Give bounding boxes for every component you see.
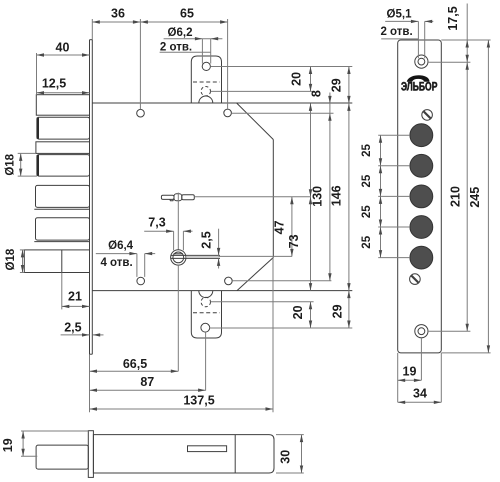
svg-text:21: 21 (68, 290, 82, 304)
dimension line dia 18 bottom (22, 250, 24, 273)
extension line hub center down (177, 265, 179, 371)
svg-text:29: 29 (331, 304, 345, 318)
svg-text:137,5: 137,5 (183, 394, 214, 408)
top tab semicircle recess (199, 96, 213, 103)
bottom screw hole inner (418, 328, 425, 335)
dimension line 2.5 faceplate (61, 334, 90, 336)
extension plate right edge down (440, 353, 442, 402)
extension line from crank arm (219, 255, 293, 257)
svg-text:47: 47 (273, 220, 287, 234)
lock body top edge (92, 102, 352, 104)
svg-text:2,5: 2,5 (200, 231, 214, 248)
extension lines dia 5.1 (417, 21, 419, 58)
latch block (24, 250, 89, 273)
svg-text:66,5: 66,5 (123, 357, 147, 371)
dimension line dia 5.1 (385, 20, 418, 22)
top screw hole inner (418, 58, 425, 65)
hub hatch line (174, 253, 184, 255)
svg-text:245: 245 (468, 187, 482, 208)
extension line x36.5 (36, 53, 38, 95)
latch face line (61, 250, 63, 273)
extension lines dia 6.4 hole (136, 254, 138, 277)
bolt rectangle 4 rounded (37, 155, 90, 177)
svg-text:34: 34 (413, 386, 427, 400)
dimension line 137.5 (90, 408, 274, 410)
dimension 73 line (310, 103, 312, 290)
dimension line dia 6.4 (96, 253, 137, 255)
extension plate top right (441, 39, 490, 41)
svg-text:36: 36 (111, 7, 125, 21)
svg-text:19: 19 (403, 365, 417, 379)
bolt 2 bold left edge (37, 118, 39, 139)
extension bottom screw hole down (420, 338, 422, 381)
extension line from top dashed hole (211, 90, 314, 92)
svg-text:25: 25 (361, 144, 373, 157)
bolt circle 1 (410, 124, 433, 147)
svg-text:17,5: 17,5 (446, 6, 460, 30)
lock body bottom-right chamfer (237, 258, 273, 291)
svg-text:Ø18: Ø18 (5, 248, 17, 270)
extension lines dia 18 top (18, 152, 36, 154)
svg-text:Ø6,2: Ø6,2 (168, 27, 193, 39)
bottom screw hole outer (415, 325, 428, 338)
svg-text:146: 146 (330, 185, 344, 206)
bolt rectangle 3 (36, 142, 90, 154)
extension plate bottom right (441, 352, 490, 354)
extension plate left edge down (397, 353, 399, 402)
svg-text:Ø18: Ø18 (4, 153, 16, 175)
dimension 47 line (291, 197, 293, 257)
extension line 65 end to hole (227, 19, 229, 109)
extension line from top tab hole (210, 66, 352, 68)
faceplate bottom step (90, 353, 93, 355)
body hole top-right (224, 109, 232, 117)
faceplate side view back edge (91, 19, 93, 40)
extension bottom hole right (428, 330, 470, 332)
svg-text:7,3: 7,3 (148, 216, 165, 230)
crank arm lower line (171, 257, 220, 259)
label shelf 2 otv (160, 51, 211, 53)
svg-text:65: 65 (180, 7, 194, 21)
faceplate top step (90, 39, 93, 41)
bottom view faceplate section (88, 431, 93, 478)
svg-text:12,5: 12,5 (42, 76, 66, 90)
body hole bottom-right (225, 277, 233, 285)
bolt rectangle 6 (36, 218, 90, 240)
svg-text:2 отв.: 2 отв. (160, 41, 192, 53)
top tab dashed line (193, 81, 220, 83)
dimension 8 and 130 line (329, 93, 331, 281)
bolt circle 4 (410, 216, 433, 239)
dimension line 87 (90, 389, 206, 391)
dimension line 21 (62, 305, 90, 307)
body hole bottom-left (137, 277, 145, 285)
bottom view slot (188, 446, 227, 452)
crank arm fill (186, 256, 219, 258)
key lever bottom notch (170, 199, 174, 200)
extension line for 21 (61, 273, 63, 310)
bottom view body (93, 435, 274, 473)
bolt rectangle 5 (36, 185, 90, 207)
svg-text:25: 25 (361, 235, 373, 248)
lock body right edge (272, 140, 274, 258)
svg-text:19: 19 (1, 438, 15, 452)
svg-text:210: 210 (449, 186, 463, 207)
svg-text:29: 29 (329, 78, 343, 92)
svg-text:Ø6,4: Ø6,4 (108, 240, 134, 252)
lever center line (177, 193, 179, 250)
extension line from bottom tab hole (210, 327, 353, 329)
key lever left bar (161, 195, 174, 199)
top screw hole outer (415, 55, 428, 68)
bolt circle 3 (410, 185, 433, 208)
dimension 20 top line (310, 67, 312, 92)
bottom view inner line (234, 435, 236, 473)
bolt 5 guide line (34, 208, 89, 210)
bolt 4 bold left edge (37, 155, 39, 176)
extension lines 7.3 (173, 231, 175, 250)
bottom screw (410, 274, 421, 285)
svg-text:20: 20 (290, 72, 304, 86)
bolt rectangle 1 (36, 95, 89, 116)
lock body bottom edge (92, 290, 352, 292)
extension line from lever (194, 196, 310, 198)
extension lines dia 6.2 hole (201, 39, 203, 64)
hub inner circle (173, 252, 184, 263)
extension line from bottom body holes (232, 280, 331, 282)
top mounting tab (191, 56, 221, 103)
faceplate side view front edge (89, 40, 91, 355)
lock body top-right chamfer (237, 103, 274, 140)
extension lines 19 bottom view (21, 430, 88, 432)
bolt 6 guide line (34, 241, 89, 243)
svg-text:30: 30 (279, 450, 293, 464)
extension line bottom tab hole down (205, 332, 207, 391)
bottom mounting tab (191, 291, 221, 338)
svg-text:73: 73 (287, 234, 301, 248)
top screw (422, 110, 433, 121)
key lever center bulge (174, 194, 182, 201)
key lever right bar (182, 195, 195, 200)
extension lines dia 18 bottom (20, 249, 24, 251)
dimension 20 bottom line (310, 302, 312, 328)
svg-text:8: 8 (310, 90, 324, 97)
bolt circle 5 (410, 246, 433, 269)
dimension line 7.3 (144, 230, 173, 232)
crank arm upper line (171, 254, 220, 256)
top tab hole (202, 62, 210, 70)
bolt circle 2 (410, 154, 433, 177)
dimension line 34 (398, 401, 442, 403)
bolt rectangle 2 rounded (37, 117, 90, 139)
dimension line 30 (301, 435, 303, 473)
body hole top-left (137, 109, 145, 117)
dimension line 12.5 (37, 92, 90, 94)
dimension 17.5 and 210 line (466, 4, 468, 332)
bottom view bolt (36, 445, 88, 469)
bottom tab dashed line (193, 312, 220, 314)
svg-text:87: 87 (140, 375, 154, 389)
extension top hole right (428, 61, 470, 63)
dimension line 2.5 crank (218, 229, 220, 256)
bottom tab semicircle recess (199, 291, 213, 298)
dimension line dia 6.2 (164, 38, 223, 40)
extension line from top body holes (231, 112, 333, 114)
dimension line 40 (37, 54, 90, 56)
dimension 245 line (487, 40, 489, 353)
dimension line dia 18 top (20, 153, 22, 176)
svg-text:40: 40 (56, 41, 70, 55)
dimension line 36-65 (92, 21, 227, 23)
logo arc (407, 76, 429, 82)
shelf 2 otv right view (381, 38, 419, 40)
dimension line 19 right view (398, 379, 422, 381)
svg-text:4 отв.: 4 отв. (100, 257, 132, 269)
svg-text:Ø5,1: Ø5,1 (387, 9, 413, 21)
svg-text:ЭЛЬБОР: ЭЛЬБОР (401, 82, 438, 94)
extension line 36/65 divider to hole (139, 19, 141, 109)
svg-text:20: 20 (291, 305, 305, 319)
bottom tab dashed hole (201, 297, 210, 306)
dimension 25 chain line (380, 135, 382, 257)
extension lines 30 (276, 434, 304, 436)
svg-text:25: 25 (361, 174, 373, 187)
dimension line 66.5 (90, 370, 179, 372)
top tab dashed hole (201, 87, 210, 96)
svg-text:25: 25 (361, 205, 373, 218)
hub outer circle (171, 250, 186, 265)
svg-text:2 отв.: 2 отв. (380, 26, 412, 38)
extension line from bottom dashed hole (211, 301, 314, 303)
extension line body right down (272, 258, 274, 413)
dimension 29-146-29 line (348, 67, 350, 329)
dimension line 19 bottom view (22, 431, 24, 456)
svg-text:130: 130 (311, 186, 325, 207)
faceplate front view outline (398, 40, 442, 353)
bolt extension lines for 25 chain (378, 134, 410, 136)
svg-text:2,5: 2,5 (64, 320, 81, 334)
bottom tab hole (201, 323, 210, 332)
